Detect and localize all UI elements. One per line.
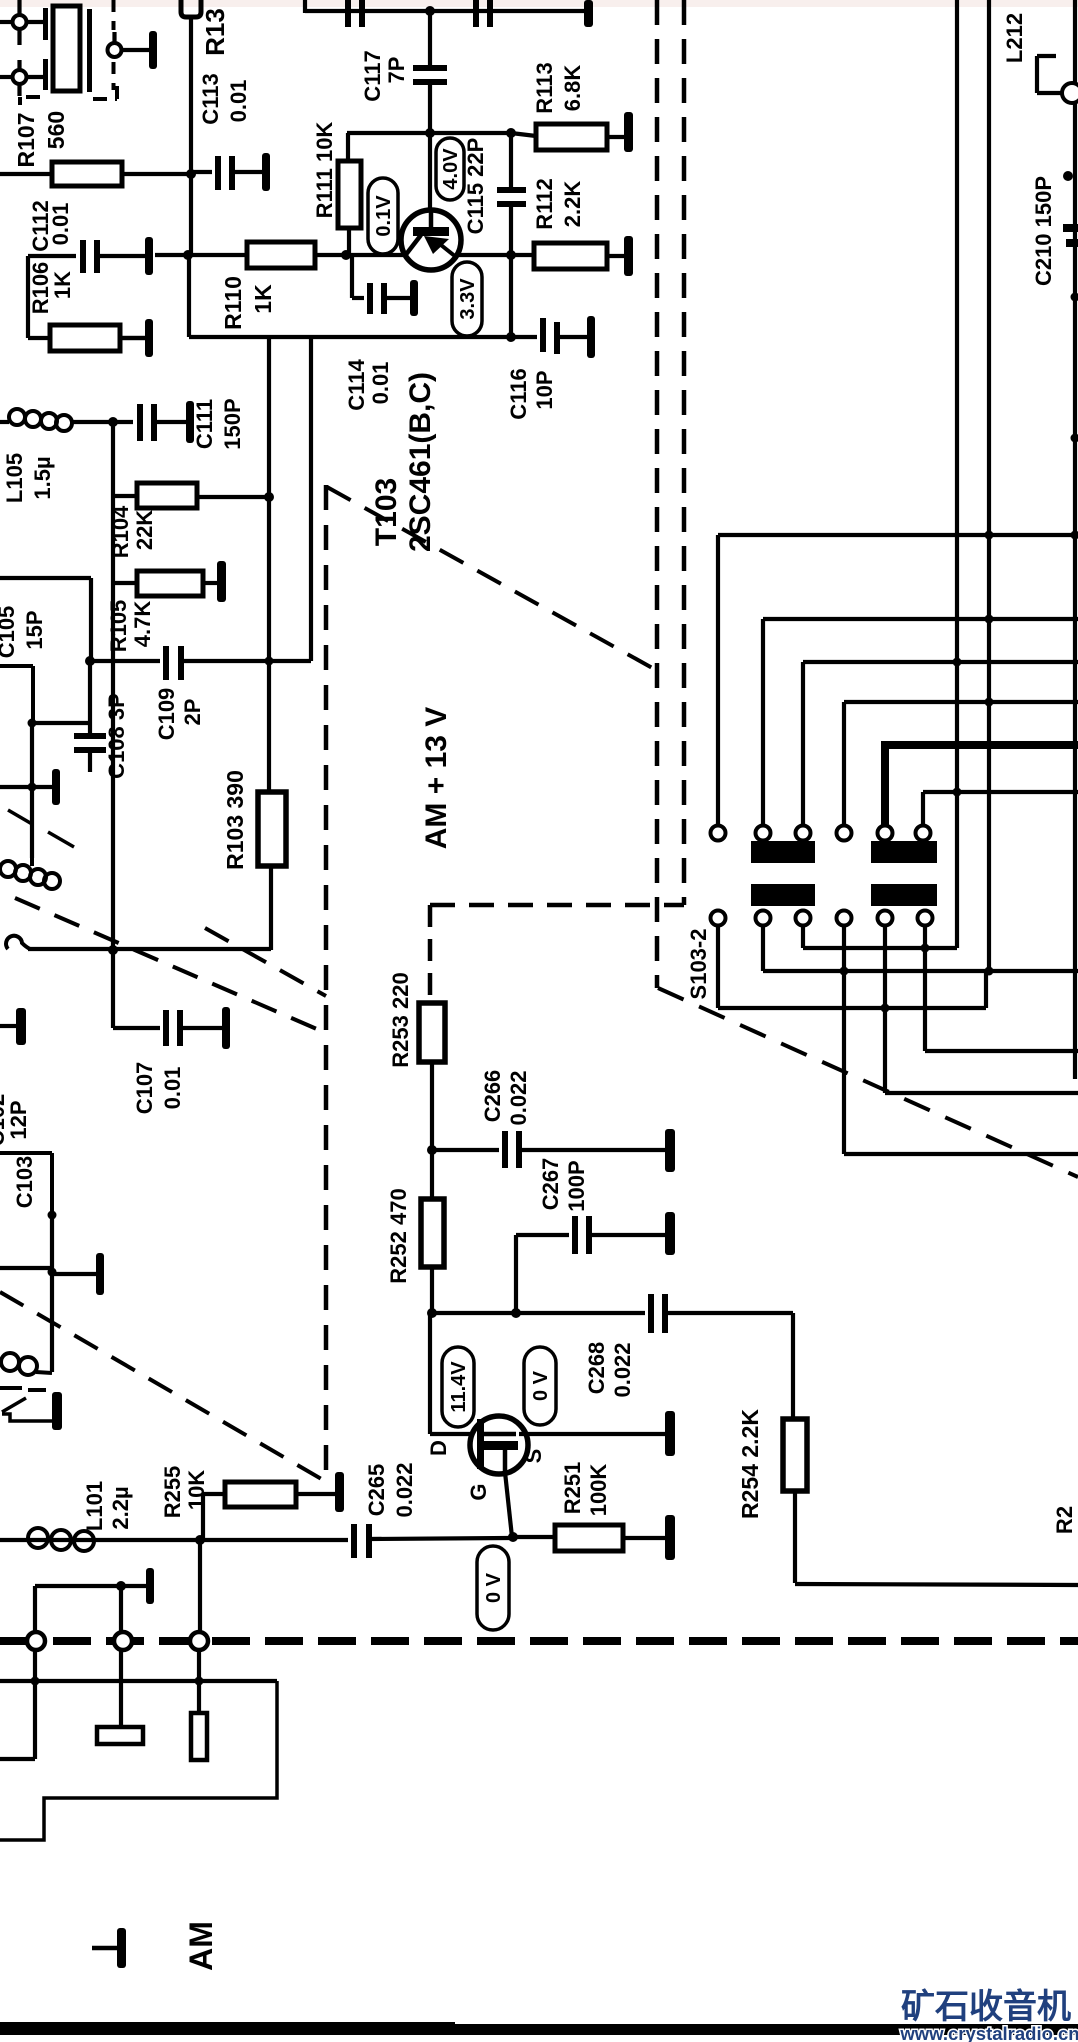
dashed box around filter (112, 0, 116, 30)
svg-text:0.01: 0.01 (226, 80, 251, 123)
ceramic filter CF (crystal symbol) (43, 8, 48, 40)
wire riser contact3 to y662 (801, 662, 805, 826)
resistor R251 (513, 1535, 555, 1539)
switch wiper bar lower left (751, 884, 815, 906)
ground bar x100 y1274 (52, 1272, 96, 1276)
ground bar y1586 (121, 1584, 146, 1588)
svg-text:L212: L212 (1002, 13, 1027, 63)
wire riser contact4 to y702 (842, 702, 846, 826)
resistor R106 (28, 336, 50, 340)
capacitor on top wire (left) (345, 0, 351, 27)
junction dot gate/R251 (508, 1532, 518, 1542)
junction dot L101/R255 (195, 1535, 205, 1545)
vertical ground line x32 (30, 723, 34, 858)
ground bar R112 (624, 236, 633, 276)
junction dot base row left (183, 250, 193, 260)
capacitor C267 (514, 1235, 518, 1313)
trimmer plate rect (97, 1727, 143, 1744)
resistor R255 (201, 1494, 205, 1540)
svg-text:AM: AM (183, 1921, 219, 1971)
capacitor on top wire (right) (473, 0, 479, 27)
capacitor C107 (163, 1010, 169, 1046)
wire x113 to C107 (111, 950, 115, 1028)
svg-text:G: G (466, 1483, 491, 1500)
junction dot R107/C113 (186, 169, 196, 179)
svg-text:2.2K: 2.2K (560, 181, 585, 228)
svg-text:S: S (521, 1449, 546, 1464)
wire riser contact1 to y535 (716, 535, 720, 826)
switch wiper bar lower right (871, 884, 937, 906)
L212 terminal circle (1062, 83, 1078, 103)
junction dot R104/x269 (264, 492, 274, 502)
emitter wire right of T103 (459, 253, 511, 257)
svg-text:7P: 7P (384, 57, 409, 84)
wire C105 box to C108 line (32, 721, 90, 725)
R254 return wire to right edge (793, 1491, 797, 1583)
oval voltage 0V gate (477, 1546, 509, 1630)
svg-text:560: 560 (43, 111, 69, 149)
capacitor C111 (113, 420, 133, 424)
lower contact circles S103-2 (711, 911, 726, 926)
capacitor C108 (88, 661, 92, 734)
svg-text:C116: C116 (506, 368, 531, 419)
wire collector row y133 (347, 131, 511, 135)
core marks AM coil (0, 1386, 22, 1390)
antenna ground mark (92, 1946, 117, 1951)
svg-text:C107: C107 (132, 1062, 157, 1115)
wire contact3-low to x957 (801, 926, 805, 948)
svg-text:C108 3P: C108 3P (104, 693, 129, 779)
svg-text:C266: C266 (480, 1070, 505, 1123)
inductor AM osc coil (1, 1353, 19, 1371)
junction dot C108 node (85, 656, 95, 666)
wire circle1 into box (33, 1650, 37, 1759)
svg-text:2.2µ: 2.2µ (108, 1486, 133, 1529)
svg-text:S103-2: S103-2 (686, 929, 711, 1000)
svg-text:11.4V: 11.4V (448, 1361, 470, 1413)
vertical wire x52 (50, 1215, 54, 1372)
svg-text:0.1V: 0.1V (373, 195, 395, 237)
svg-text:C111: C111 (192, 399, 217, 449)
wire contact6-low to H4 (923, 926, 927, 1051)
inductor L101 (28, 1528, 48, 1548)
svg-text:矿石收音机: 矿石收音机 (901, 1988, 1071, 2026)
terminal circle 2 (119, 1586, 123, 1631)
wire y578 from left edge (0, 576, 91, 580)
svg-text:L101: L101 (82, 1481, 107, 1531)
dashed funnel left A (15, 898, 326, 1033)
svg-text:1K: 1K (250, 284, 276, 314)
junction dot C267 riser (511, 1308, 521, 1318)
svg-text:C113: C113 (198, 73, 223, 124)
svg-text:R111 10K: R111 10K (312, 122, 337, 219)
ground bar top wire (584, 0, 593, 27)
ground bar R251 (665, 1515, 675, 1560)
svg-text:0.01: 0.01 (48, 203, 73, 246)
svg-text:C105: C105 (0, 606, 19, 659)
svg-text:R112: R112 (532, 178, 557, 229)
junction dot y1586 (116, 1581, 126, 1591)
capacitor C114 (350, 255, 354, 298)
dashed diagonal D2b to C265 corner (0, 1292, 330, 1484)
svg-text:R255: R255 (160, 1466, 185, 1519)
dashed shield vertical x326 (324, 485, 329, 1480)
ground bar C111 (156, 420, 186, 424)
resistor R105 (113, 581, 137, 585)
svg-text:C267: C267 (538, 1158, 563, 1211)
wire circle3 to rod (197, 1650, 201, 1713)
AM coil lower bracket (2, 1414, 52, 1421)
svg-text:R251: R251 (560, 1462, 585, 1515)
junction dot top wire (425, 6, 435, 16)
svg-text:D: D (426, 1440, 451, 1456)
FET gate lead (503, 1450, 508, 1472)
svg-text:12P: 12P (6, 1100, 31, 1139)
junction dots right edge (1063, 171, 1073, 181)
svg-text:100K: 100K (586, 1464, 611, 1517)
dashed shield vertical x657 (655, 0, 660, 988)
junction dot x1075 y535 (1071, 531, 1078, 540)
resistor R253 (419, 1003, 445, 1062)
svg-text:100P: 100P (564, 1160, 589, 1211)
emitter return wire y337 (189, 335, 511, 339)
ground bar source (665, 1411, 675, 1456)
svg-text:C268: C268 (584, 1342, 609, 1395)
resistor R252 (430, 1150, 434, 1199)
junction dot drain row left (427, 1308, 437, 1318)
svg-text:1K: 1K (50, 271, 75, 299)
svg-text:R110: R110 (220, 276, 246, 330)
FET source lead (519, 1432, 665, 1436)
vertical wire x113 (111, 422, 115, 950)
svg-text:15P: 15P (22, 610, 47, 649)
AM box top wire y1681 (0, 1679, 277, 1683)
terminal circle 1 (33, 1586, 37, 1631)
junction dot H3/contact5 (881, 1004, 890, 1013)
vertical wire x311 (309, 337, 313, 661)
arrow mark AM coil (2, 1398, 26, 1412)
ground bar C112 (99, 254, 145, 258)
vertical wire x269 (emitter row to R103) (267, 337, 271, 792)
junction dot x113/y949 (108, 945, 118, 955)
junction dot x925/y948 (921, 944, 930, 953)
wire left edge y1268 (0, 1266, 52, 1270)
gate row wire / capacitor C265 (0, 1538, 348, 1542)
svg-text:www.crystalradio.cn: www.crystalradio.cn (899, 2023, 1078, 2042)
junction dot C103 box (48, 1211, 57, 1220)
svg-text:0 V: 0 V (530, 1370, 552, 1401)
junction dot x52 y1272 (48, 1268, 57, 1277)
ground bar C266 (665, 1129, 675, 1172)
resistor R104 (113, 494, 137, 498)
junction dot C116 (506, 332, 516, 342)
switch wiper bar upper left (751, 841, 815, 863)
junction dot x32 ground (28, 783, 37, 792)
dashed shield line D1 (T103 funnel) (327, 487, 656, 670)
capacitor C109 on wire y661 (90, 659, 160, 663)
wire circle2 to trimmer (119, 1650, 123, 1727)
svg-text:R105: R105 (106, 600, 131, 653)
ground bar AM coil (52, 1392, 62, 1430)
svg-text:C109: C109 (154, 688, 179, 741)
resistor R112 (511, 253, 534, 257)
capacitor C116 (511, 335, 537, 339)
wire contact5-low to H5 (883, 926, 887, 1093)
connector terminal at top x192 (181, 0, 201, 17)
svg-text:0.022: 0.022 (610, 1342, 635, 1397)
capacitor C117 (428, 11, 432, 66)
svg-text:0 V: 0 V (483, 1572, 505, 1603)
box component C105 (cut at left edge) (0, 664, 33, 668)
ground bar C107 (182, 1026, 222, 1030)
capacitor C266 (432, 1148, 499, 1152)
junction dot AM box 3 (195, 1677, 204, 1686)
dashed terminal line y1641 (0, 1637, 1078, 1645)
inductor L105 (0, 420, 9, 424)
svg-text:R254 2.2K: R254 2.2K (737, 1409, 763, 1519)
antenna rod rect (191, 1713, 207, 1760)
oval voltage 4.0V (436, 138, 464, 200)
long vertical wire x989 (987, 0, 991, 973)
svg-text:22K: 22K (132, 510, 157, 550)
dashed AM+13V rail vertical (428, 905, 433, 1003)
svg-text:4.7K: 4.7K (130, 601, 155, 648)
svg-text:C117: C117 (360, 50, 385, 101)
svg-text:R113: R113 (532, 62, 557, 113)
switch contact circle 3 (filter ground) (112, 32, 116, 42)
svg-text:R13: R13 (200, 8, 230, 56)
junction dot C266 (427, 1145, 437, 1155)
svg-text:2P: 2P (180, 699, 205, 726)
resistor R110 (188, 253, 247, 257)
upper contact circles S103-2 (711, 826, 726, 841)
resistor R107 (0, 172, 52, 176)
wire contact4-low to H6 (842, 926, 846, 1154)
svg-text:6.8K: 6.8K (560, 65, 585, 112)
svg-text:R103 390: R103 390 (222, 770, 248, 870)
svg-text:C114: C114 (344, 359, 369, 411)
ground bar C113 (234, 170, 262, 174)
long vertical wire x957 (955, 0, 959, 948)
wire riser contact6 to y792 (921, 792, 925, 826)
AM box right/bottom outline (0, 1681, 277, 1840)
svg-text:1.5µ: 1.5µ (30, 456, 55, 499)
svg-text:0.01: 0.01 (368, 362, 393, 405)
switch contact circle top-left 1 (17, 0, 21, 15)
svg-text:C210 150P: C210 150P (1031, 176, 1056, 286)
junction dot R111 base (341, 250, 351, 260)
L212 bracket wire (1037, 54, 1056, 58)
svg-text:3.3V: 3.3V (457, 278, 479, 320)
switch wiper bar upper right (871, 841, 937, 863)
junction dot L105/C111 (108, 417, 118, 427)
svg-text:0.01: 0.01 (160, 1067, 185, 1110)
capacitor C268 (648, 1294, 654, 1333)
wire C112-ground to node (y255) (155, 253, 188, 257)
junction dot x269/y661 (265, 657, 274, 666)
inductor T101 primary (0, 861, 16, 877)
resistor R254 (783, 1419, 807, 1491)
capacitor C210 (cut at edge) (1063, 224, 1078, 232)
ground bar x55 (32, 785, 52, 789)
junction dots on H2 (840, 967, 849, 976)
resistor R113 (511, 133, 536, 136)
wire contact1-low to H3 (716, 926, 720, 1008)
svg-text:R253 220: R253 220 (388, 972, 413, 1067)
ground bar for filter (122, 48, 149, 52)
capacitor C115 (509, 133, 513, 188)
junction dot collector/R113 (506, 128, 516, 138)
svg-text:AM + 13 V: AM + 13 V (420, 707, 453, 850)
junction dot AM box 1 (31, 1677, 40, 1686)
ground bar C267 (665, 1212, 675, 1255)
wire base row to T103 (346, 253, 403, 257)
resistor R111 (346, 133, 350, 161)
thick wire riser contact5 to y745 (881, 745, 889, 826)
transistor T103 2SC461 (428, 133, 432, 211)
drain row wire y1313 (432, 1311, 645, 1315)
wire contact2-low to H2 (761, 926, 765, 971)
oval voltage 3.3V (452, 262, 482, 336)
wire top bracket y1586 (35, 1584, 121, 1588)
svg-text:4.0V: 4.0V (440, 148, 462, 190)
svg-text:R252 470: R252 470 (386, 1188, 411, 1283)
ground bar R106 (120, 336, 145, 340)
svg-text:0.022: 0.022 (392, 1462, 417, 1517)
oval voltage 0V source (524, 1347, 556, 1425)
junction dot C105 box (28, 719, 37, 728)
bottom border line (0, 2022, 455, 2035)
capacitor C113 (191, 170, 212, 174)
top feed wire y11 (303, 0, 307, 13)
svg-text:10P: 10P (532, 370, 557, 409)
svg-text:C115 22P: C115 22P (463, 138, 488, 235)
FET T104 2SK105 (470, 1416, 528, 1474)
svg-text:0.022: 0.022 (506, 1070, 531, 1125)
inductor T101 lower turn (6, 936, 30, 949)
resistor R254 wire down (791, 1313, 795, 1419)
wire riser contact2 to y619 (761, 619, 765, 826)
ground bar C116 (559, 335, 587, 339)
svg-text:R104: R104 (108, 505, 133, 558)
oval voltage 0.1V (368, 178, 398, 254)
ground bar R255 (335, 1472, 344, 1512)
ground bar R113 (624, 112, 633, 152)
dashed diagonal D3 (S103 funnel) (658, 988, 1078, 1177)
svg-text:2SC461(B,C): 2SC461(B,C) (404, 372, 437, 552)
box component C103 (cut at left edge) (0, 1151, 52, 1155)
junction dots on bus crossings (985, 531, 994, 540)
dashed funnel left B (205, 928, 326, 996)
right edge vertical bus x1075 (1073, 0, 1077, 1079)
FET T104 drain lead (428, 1313, 432, 1434)
core arrow marks T101 (8, 810, 32, 824)
oscillator feed wire y949 (28, 947, 271, 951)
emitter bypass vertical (509, 255, 513, 337)
svg-text:150P: 150P (220, 398, 245, 449)
svg-text:C265: C265 (364, 1464, 389, 1517)
junction dot emitter/R112 (506, 250, 516, 260)
capacitor C112 (26, 256, 30, 338)
switch contact circle top-left 2 (0, 75, 12, 79)
oval voltage 11.4V (442, 1347, 474, 1427)
wire left edge y787 (0, 785, 32, 789)
resistor R103 (258, 792, 286, 866)
dashed shield vertical x684 (682, 0, 687, 905)
svg-text:10K: 10K (184, 1470, 209, 1510)
svg-text:L105: L105 (2, 453, 27, 503)
ground bar R105 (217, 561, 226, 602)
junction dot C117/T103 (425, 128, 435, 138)
ground bar left edge y1026 (0, 1024, 16, 1028)
ground bar C114 (386, 296, 410, 300)
svg-text:R2: R2 (1052, 1506, 1077, 1534)
wire vertical node A (x191 from connector to R110 row) (189, 17, 193, 172)
terminal circle 3 (198, 1540, 202, 1631)
dashed AM+13V rail horizontal (430, 903, 684, 908)
svg-text:C103: C103 (12, 1156, 37, 1209)
svg-text:R107: R107 (13, 113, 39, 168)
